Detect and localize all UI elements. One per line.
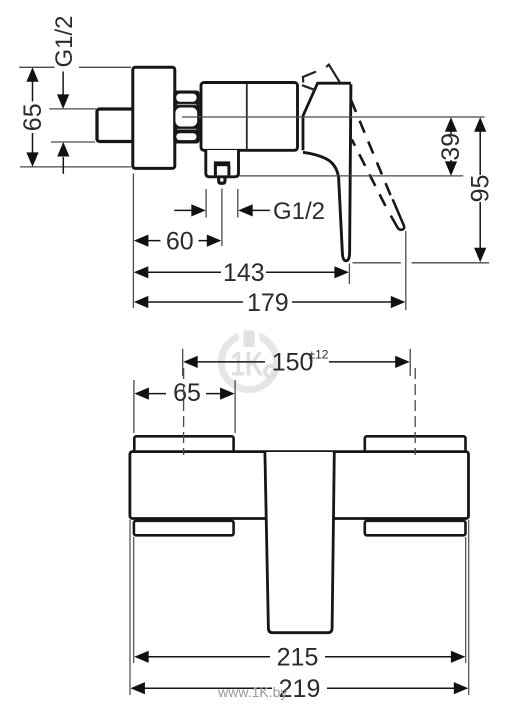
wire: lever tip extension short (348, 264, 350, 285)
watermark logo circle (222, 327, 277, 390)
svg-text:1K: 1K (231, 346, 264, 383)
raised handle thin outline (303, 65, 340, 83)
wire: bottom extension line of escutcheon bottom (20, 166, 131, 168)
wire: escutcheon left edge extension line down (132, 174, 134, 309)
svg-text:179: 179 (247, 289, 289, 317)
mixer body side view (201, 83, 298, 151)
dimension 95 right vertical (466, 117, 494, 262)
dimension 150 +-12 (183, 348, 411, 377)
dimension 143 (134, 259, 349, 287)
dimension 219 (130, 675, 468, 703)
svg-text:143: 143 (223, 259, 265, 287)
G1/2 leader up arrow (62, 157, 64, 174)
handle cover escutcheon (303, 83, 351, 150)
center dashed line right connection (414, 368, 416, 455)
dimension 39 right vertical (437, 117, 465, 176)
dimension 65 bottom view (134, 379, 235, 433)
dashed lever tip cap (391, 199, 404, 229)
body bar bottom view (130, 452, 469, 519)
wire: nipple top extension line (49, 108, 96, 110)
union nut (173, 91, 199, 144)
escutcheon side view (133, 67, 175, 168)
svg-text:215: 215 (277, 644, 319, 672)
wire: esc right edge extension down (465, 537, 467, 663)
wire: outlet center extension line (221, 189, 223, 247)
wire: top extension line of escutcheon top (19, 67, 131, 167)
svg-text:G1/2: G1/2 (51, 15, 78, 67)
dimension 65 left vertical (19, 67, 47, 167)
wire: body centerline (182, 116, 485, 118)
svg-text:±12: ±12 (309, 348, 329, 362)
center dashed line left connection (183, 368, 185, 455)
svg-text:60: 60 (166, 227, 194, 255)
nipple square G1/2 wall connection (97, 109, 135, 142)
dimension 60 (134, 227, 221, 255)
wire: body internal vertical line (246, 84, 248, 150)
handle bottom view (265, 452, 334, 633)
dimension 215 (134, 644, 465, 672)
wire: outlet bottom extension to 39 (240, 175, 464, 177)
dashed lever position line B (352, 140, 390, 214)
svg-text:95: 95 (466, 175, 494, 203)
wire: dashed lever tip extension (405, 231, 407, 310)
svg-text:www.1K.by: www.1K.by (217, 684, 287, 700)
svg-text:65: 65 (19, 103, 47, 131)
G1/2 leader down arrow (62, 72, 64, 97)
left escutcheon lower rect bottom view (134, 521, 234, 536)
outlet fitting under body (206, 150, 239, 185)
wire: bar right edge extension down (468, 520, 470, 695)
cover shoulder thin arc (302, 85, 315, 90)
handle lever blade (303, 84, 351, 261)
outlet G1/2 dimension with arrows (174, 189, 325, 225)
dashed lever position line A (351, 100, 392, 198)
wire: nipple bottom extension line (51, 141, 95, 143)
dimension 179 (134, 289, 406, 317)
svg-text:150: 150 (272, 348, 314, 376)
svg-text:39: 39 (437, 133, 465, 161)
wire: lever tip extension to 95 (353, 262, 490, 264)
svg-text:G1/2: G1/2 (273, 198, 325, 225)
right escutcheon lower rect bottom view (365, 521, 466, 536)
left wall union square bottom view (134, 436, 233, 453)
wire: esc left edge extension down (133, 537, 135, 663)
wire: bar left edge extension down (129, 520, 131, 695)
right wall union square bottom view (365, 436, 466, 453)
svg-text:65: 65 (173, 379, 201, 407)
